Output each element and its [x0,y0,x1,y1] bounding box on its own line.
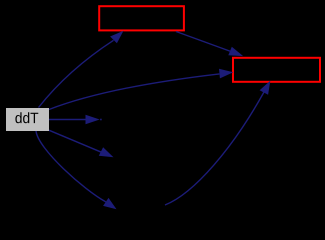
wire: edge bottom hidden node to right red box (curved) [165,92,264,205]
arrowhead into left edge of right red box [219,69,233,79]
wire: edge ddT to bottom hidden node (curved) [36,131,106,202]
arrowhead into bottom edge of right red box [260,81,271,95]
wire: edge ddT to top red box [39,40,114,107]
node: right red box (truncated node) [233,58,320,82]
arrowhead into bottom edge of top red box [110,31,123,44]
wire stub past arrowhead [100,119,102,121]
node ddT: gray filled current node [6,108,49,131]
wire: edge ddT to right red box (left side) [49,74,219,110]
wire: edge top red box to right red box [176,32,231,52]
arrowhead pointing down-right at hidden node [99,147,114,157]
wire: edge ddT to hidden node (horizontal) [49,119,86,121]
arrowhead into top edge of right red box [228,47,243,56]
wire: edge ddT to hidden node (down-right) [49,130,101,152]
arrowhead pointing right at hidden node [86,115,100,125]
node: top red box (truncated node) [99,6,184,30]
arrowhead pointing down-right at bottom hidden node [103,198,116,209]
label ddT [15,112,38,123]
